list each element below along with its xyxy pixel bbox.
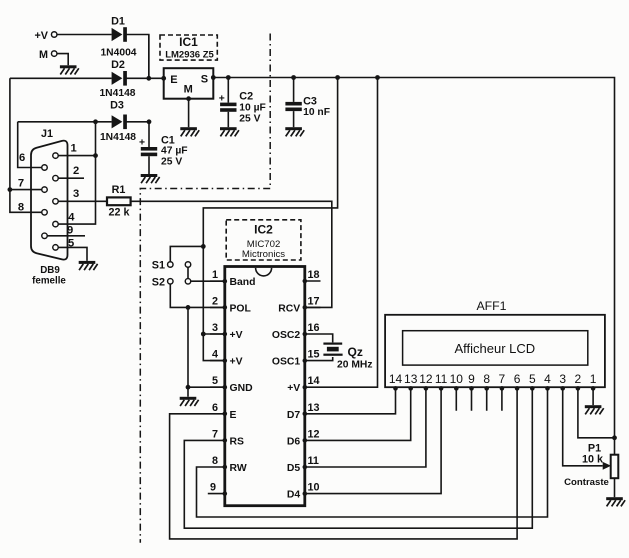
svg-text:Mictronics: Mictronics <box>242 249 285 260</box>
svg-text:RCV: RCV <box>278 303 300 314</box>
svg-text:22 k: 22 k <box>108 207 130 219</box>
svg-text:10 µF: 10 µF <box>239 102 266 113</box>
svg-text:RW: RW <box>230 463 247 474</box>
svg-text:16: 16 <box>308 322 320 334</box>
svg-text:13: 13 <box>308 402 320 414</box>
svg-text:+V: +V <box>230 330 243 341</box>
svg-text:10 k: 10 k <box>582 454 604 466</box>
svg-text:2: 2 <box>575 372 582 386</box>
svg-text:6: 6 <box>212 402 218 414</box>
svg-text:10 nF: 10 nF <box>303 107 330 118</box>
svg-text:1N4148: 1N4148 <box>100 132 136 143</box>
svg-text:Contraste: Contraste <box>564 477 609 488</box>
svg-text:+V: +V <box>34 30 48 42</box>
svg-text:3: 3 <box>559 372 566 386</box>
svg-text:OSC1: OSC1 <box>272 357 301 368</box>
svg-text:3: 3 <box>73 188 79 200</box>
svg-text:25 V: 25 V <box>239 114 260 125</box>
svg-text:12: 12 <box>308 428 320 440</box>
svg-text:17: 17 <box>308 295 320 307</box>
svg-text:1: 1 <box>212 269 218 281</box>
svg-text:5: 5 <box>529 372 536 386</box>
svg-text:Afficheur LCD: Afficheur LCD <box>454 341 535 356</box>
svg-text:14: 14 <box>389 372 403 386</box>
svg-text:5: 5 <box>212 375 218 387</box>
svg-text:D4: D4 <box>287 490 301 501</box>
svg-text:13: 13 <box>404 372 418 386</box>
svg-text:11: 11 <box>435 372 448 386</box>
svg-text:+V: +V <box>230 357 243 368</box>
svg-text:S2: S2 <box>152 276 165 288</box>
svg-text:RS: RS <box>230 436 245 447</box>
svg-text:Qz: Qz <box>348 345 363 359</box>
svg-text:E: E <box>170 74 177 86</box>
svg-text:+: + <box>219 93 225 104</box>
svg-text:25 V: 25 V <box>161 157 182 168</box>
svg-text:GND: GND <box>230 383 254 394</box>
svg-text:11: 11 <box>308 455 319 467</box>
svg-text:AFF1: AFF1 <box>476 299 506 313</box>
svg-text:1N4148: 1N4148 <box>99 88 135 99</box>
svg-text:E: E <box>230 410 237 421</box>
svg-text:S1: S1 <box>152 260 165 272</box>
svg-text:R1: R1 <box>112 184 126 196</box>
svg-text:M: M <box>184 84 193 96</box>
svg-text:C2: C2 <box>239 90 253 102</box>
svg-text:D2: D2 <box>111 59 125 71</box>
svg-text:8: 8 <box>18 202 24 214</box>
svg-text:10: 10 <box>450 372 464 386</box>
svg-text:LM2936 Z5: LM2936 Z5 <box>165 49 214 60</box>
svg-text:J1: J1 <box>41 128 53 140</box>
svg-text:D3: D3 <box>110 100 124 112</box>
svg-text:S: S <box>201 74 208 86</box>
svg-text:M: M <box>39 49 48 61</box>
svg-text:IC1: IC1 <box>179 35 198 49</box>
svg-text:P1: P1 <box>588 442 601 454</box>
svg-text:+V: +V <box>287 383 300 394</box>
svg-text:15: 15 <box>308 349 320 361</box>
svg-text:9: 9 <box>210 482 216 494</box>
svg-text:47 µF: 47 µF <box>161 146 188 157</box>
svg-text:OSC2: OSC2 <box>272 330 301 341</box>
svg-text:9: 9 <box>468 372 475 386</box>
svg-text:14: 14 <box>308 375 320 387</box>
svg-text:1: 1 <box>590 372 597 386</box>
svg-text:18: 18 <box>308 269 320 281</box>
svg-text:D1: D1 <box>111 16 125 28</box>
svg-text:6: 6 <box>19 152 25 164</box>
svg-text:4: 4 <box>544 372 551 386</box>
svg-text:9: 9 <box>67 225 73 237</box>
svg-text:D7: D7 <box>287 410 301 421</box>
svg-text:2: 2 <box>73 165 79 177</box>
svg-text:POL: POL <box>230 303 252 314</box>
svg-text:+: + <box>139 138 145 149</box>
svg-text:DB9: DB9 <box>40 265 60 276</box>
svg-text:C3: C3 <box>303 96 317 108</box>
svg-text:3: 3 <box>212 322 218 334</box>
svg-text:8: 8 <box>212 455 218 467</box>
svg-text:7: 7 <box>18 178 24 190</box>
svg-text:Band: Band <box>230 277 256 288</box>
svg-text:20 MHz: 20 MHz <box>337 359 372 370</box>
svg-text:D5: D5 <box>287 463 301 474</box>
svg-text:12: 12 <box>419 372 433 386</box>
svg-text:femelle: femelle <box>32 275 66 286</box>
svg-text:10: 10 <box>308 482 320 494</box>
svg-text:1: 1 <box>71 143 77 155</box>
svg-text:1N4004: 1N4004 <box>100 48 136 59</box>
svg-text:8: 8 <box>483 372 490 386</box>
svg-text:7: 7 <box>499 372 506 386</box>
svg-text:IC2: IC2 <box>254 223 273 237</box>
svg-text:D6: D6 <box>287 436 301 447</box>
svg-text:6: 6 <box>514 372 521 386</box>
svg-text:2: 2 <box>212 295 218 307</box>
svg-text:4: 4 <box>68 212 75 224</box>
svg-text:5: 5 <box>68 237 74 249</box>
svg-text:4: 4 <box>212 349 218 361</box>
svg-text:7: 7 <box>212 428 218 440</box>
